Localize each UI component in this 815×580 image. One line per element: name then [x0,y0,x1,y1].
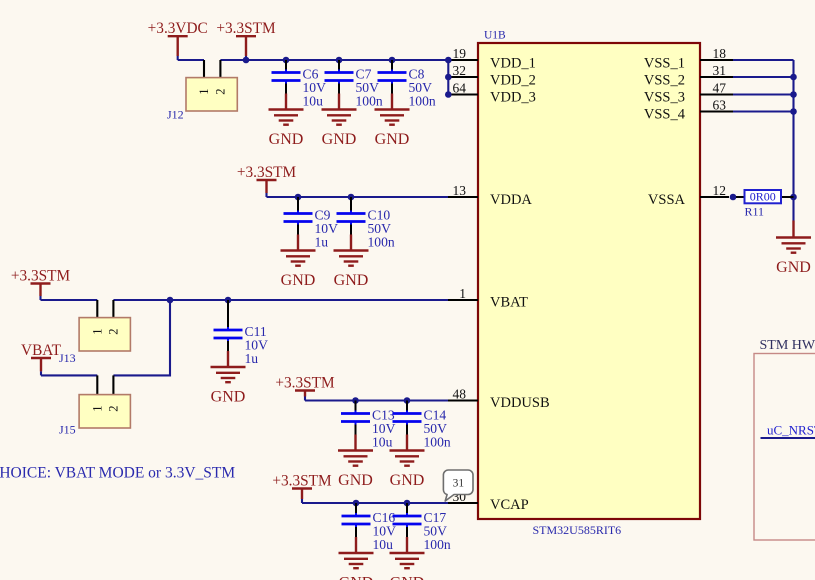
svg-text:1: 1 [459,286,466,301]
capacitor C8 [378,60,407,94]
pin 31 VSS stub [700,63,733,78]
svg-text:1: 1 [90,405,104,411]
resistor R11 [745,190,782,204]
capacitor C11 [214,300,243,351]
C11 value labels [245,324,269,366]
svg-text:VBAT: VBAT [490,295,528,311]
wire VSS bus vertical [792,60,794,221]
power port +3.3STM (VCAP rail) [272,473,332,504]
wire VCAP rail [302,502,448,504]
wire VSS_1 to bus [733,59,794,61]
ground at C7 [322,94,357,149]
R11 designator [745,205,765,219]
svg-text:32: 32 [453,63,467,78]
ground at C10 [334,235,369,290]
jumper J13 [79,300,130,351]
svg-text:GND: GND [375,131,410,148]
svg-text:+3.3VDC: +3.3VDC [148,20,208,37]
U1B designator [484,30,506,42]
node VSSA junction [730,194,737,201]
svg-text:10u: 10u [303,94,324,109]
power port +3.3STM (VDD rail) [216,20,276,60]
svg-text:VSS_1: VSS_1 [644,55,685,71]
pin 63 VSS stub [700,98,733,113]
op-amp U1B body (STM32 power part) [478,43,700,519]
sheet symbol STM HW box [754,354,815,541]
wire +3.3STM to J13 pin1 [41,299,98,301]
ground at C13 [338,435,373,490]
ground at C16 [339,537,374,580]
ground at C14 [390,435,425,490]
junction dots VCAP rail [353,500,411,507]
svg-text:GND: GND [281,272,316,289]
svg-text:31: 31 [453,478,465,490]
pin 64 VDD stub [448,81,478,96]
svg-text:GND: GND [322,131,357,148]
power port +3.3STM (VDDUSB rail) [275,375,335,401]
svg-text:VSS_4: VSS_4 [644,107,686,123]
C14 value labels [424,408,451,450]
junction dots VDDA rail [295,194,355,201]
wire J13 pin2 to VBAT pin [113,299,448,301]
C10 value labels [368,208,395,250]
pin 47 VSS stub [700,81,733,96]
pin name VDD_3 [490,90,536,106]
junction dots VDD rail [243,57,452,98]
capacitor C10 [337,197,366,235]
power port VBAT [21,342,62,375]
capacitor C17 [393,503,422,537]
sheet title STM HW RESET [760,338,815,353]
C17 value labels [424,510,451,552]
svg-text:0R00: 0R00 [750,190,776,204]
svg-text:VDD_3: VDD_3 [490,90,536,106]
svg-text:GND: GND [390,575,425,580]
svg-text:GND: GND [390,472,425,489]
pin 19 VDD stub [448,46,478,61]
svg-text:100n: 100n [368,235,395,250]
capacitor C16 [342,503,371,537]
svg-text:100n: 100n [424,435,451,450]
svg-text:VDDUSB: VDDUSB [490,395,550,411]
svg-text:VCAP: VCAP [490,497,529,513]
svg-text:STM32U585RIT6: STM32U585RIT6 [533,523,622,537]
C13 value labels [372,408,396,450]
wire VBAT to J15 pin1 [41,374,97,376]
capacitor C9 [284,197,313,235]
svg-text:uC_NRST: uC_NRST [767,423,815,438]
C6 value labels [303,67,327,109]
svg-text:2: 2 [106,328,120,334]
capacitor C13 [341,401,370,435]
junction dots VSS bus [790,74,797,201]
svg-text:+3.3STM: +3.3STM [216,20,276,37]
wire uC_NRST [761,437,815,439]
wire J15 pin2 up to VBAT rail [113,300,170,375]
svg-text:+3.3STM: +3.3STM [275,375,335,392]
capacitor C6 [272,60,301,94]
svg-text:U1B: U1B [484,30,506,42]
svg-text:VSS_2: VSS_2 [644,72,685,88]
callout balloon pin 31 [443,470,473,501]
svg-text:47: 47 [713,81,727,96]
junction dots VDDUSB rail [352,397,410,404]
svg-text:13: 13 [453,183,467,198]
ground at C8 [375,94,410,149]
svg-text:48: 48 [453,387,467,402]
svg-text:31: 31 [713,63,727,78]
svg-text:1: 1 [197,88,211,94]
svg-text:GND: GND [338,472,373,489]
note CHOICE: VBAT MODE or 3.3V_STM [0,465,235,482]
svg-text:R11: R11 [745,205,765,219]
wire VSS_4 to bus [733,110,794,112]
svg-text:VDDA: VDDA [490,192,532,208]
C8 value labels [409,67,436,109]
jumper J12 [186,60,237,111]
svg-text:VBAT: VBAT [21,342,62,359]
svg-text:GND: GND [269,131,304,148]
wire R11 to VSS bus [781,196,794,198]
pin name VCAP [490,497,529,513]
svg-text:STM HW RESET: STM HW RESET [760,338,815,353]
U1B comment STM32U585RIT6 [533,523,622,537]
ground at C11 [211,351,246,406]
svg-text:64: 64 [453,81,467,96]
svg-text:GND: GND [776,259,811,276]
svg-text:10u: 10u [372,435,393,450]
svg-text:VDD_2: VDD_2 [490,72,536,88]
svg-text:+3.3STM: +3.3STM [11,268,71,285]
svg-text:12: 12 [713,183,727,198]
power port +3.3VDC [148,20,208,60]
capacitor C14 [393,401,422,435]
svg-text:CHOICE: VBAT MODE or 3.3V_STM: CHOICE: VBAT MODE or 3.3V_STM [0,465,235,482]
ground at C6 [269,94,304,149]
svg-text:GND: GND [334,272,369,289]
jumper J15 [79,375,130,428]
svg-text:J13: J13 [59,351,76,365]
wire VDDA rail [267,196,449,198]
svg-text:100n: 100n [356,94,383,109]
svg-text:1u: 1u [245,351,259,366]
svg-text:19: 19 [453,46,467,61]
svg-text:VSS_3: VSS_3 [644,90,685,106]
junction dots VBAT rail [167,297,232,304]
C9 value labels [315,208,339,250]
pin 1 VBAT stub [448,286,478,301]
ground at C9 [281,235,316,290]
pin name VSS_2 [644,72,685,88]
svg-text:1: 1 [90,328,104,334]
ground at C17 [390,537,425,580]
C7 value labels [356,67,383,109]
wire VDD vertical to pins 32/64 [447,60,449,95]
pin 18 VSS stub [700,46,733,61]
pin name VDDA [490,192,532,208]
svg-text:GND: GND [339,575,374,580]
wire J12 pin2 to VDD pins [220,59,448,61]
svg-text:2: 2 [213,88,227,94]
svg-text:100n: 100n [424,537,451,552]
pin name VDDUSB [490,395,550,411]
svg-text:+3.3STM: +3.3STM [272,473,332,490]
wire VDDUSB rail [305,399,448,401]
wire VSSA to R11 [736,196,745,198]
pin name VSSA [648,192,686,208]
svg-text:J15: J15 [59,423,76,437]
svg-text:VDD_1: VDD_1 [490,55,536,71]
pin 12 VSSA stub [700,183,729,198]
svg-text:18: 18 [713,46,727,61]
pin 13 VDDA stub [448,183,478,198]
pin 48 VDDUSB stub [448,387,478,402]
svg-text:10u: 10u [373,537,394,552]
J12 designator [167,108,184,122]
pin name VSS_3 [644,90,685,106]
power port +3.3STM (VDDA rail) [237,164,297,197]
J15 designator [59,423,76,437]
svg-text:GND: GND [211,389,246,406]
pin name VSS_4 [644,107,686,123]
capacitor C7 [325,60,354,94]
pin name VSS_1 [644,55,685,71]
svg-text:63: 63 [713,98,727,113]
pin 30 VCAP stub [448,489,478,504]
power port +3.3STM (VBAT rail) [11,268,71,301]
svg-text:2: 2 [106,405,120,411]
wire VSS_3 to bus [733,93,794,95]
pin 32 VDD stub [448,63,478,78]
svg-text:+3.3STM: +3.3STM [237,164,297,181]
pin name VDD_2 [490,72,536,88]
wire +3.3VDC to J12 pin1 [178,59,204,61]
J13 designator [59,351,76,365]
pin name VDD_1 [490,55,536,71]
pin name VBAT [490,295,528,311]
svg-text:VSSA: VSSA [648,192,686,208]
svg-text:100n: 100n [409,94,436,109]
ground at VSS bus [776,221,811,277]
net label uC_NRST [767,423,815,438]
svg-text:1u: 1u [315,235,329,250]
C16 value labels [373,510,397,552]
wire VSS_2 to bus [733,76,794,78]
svg-text:J12: J12 [167,108,184,122]
